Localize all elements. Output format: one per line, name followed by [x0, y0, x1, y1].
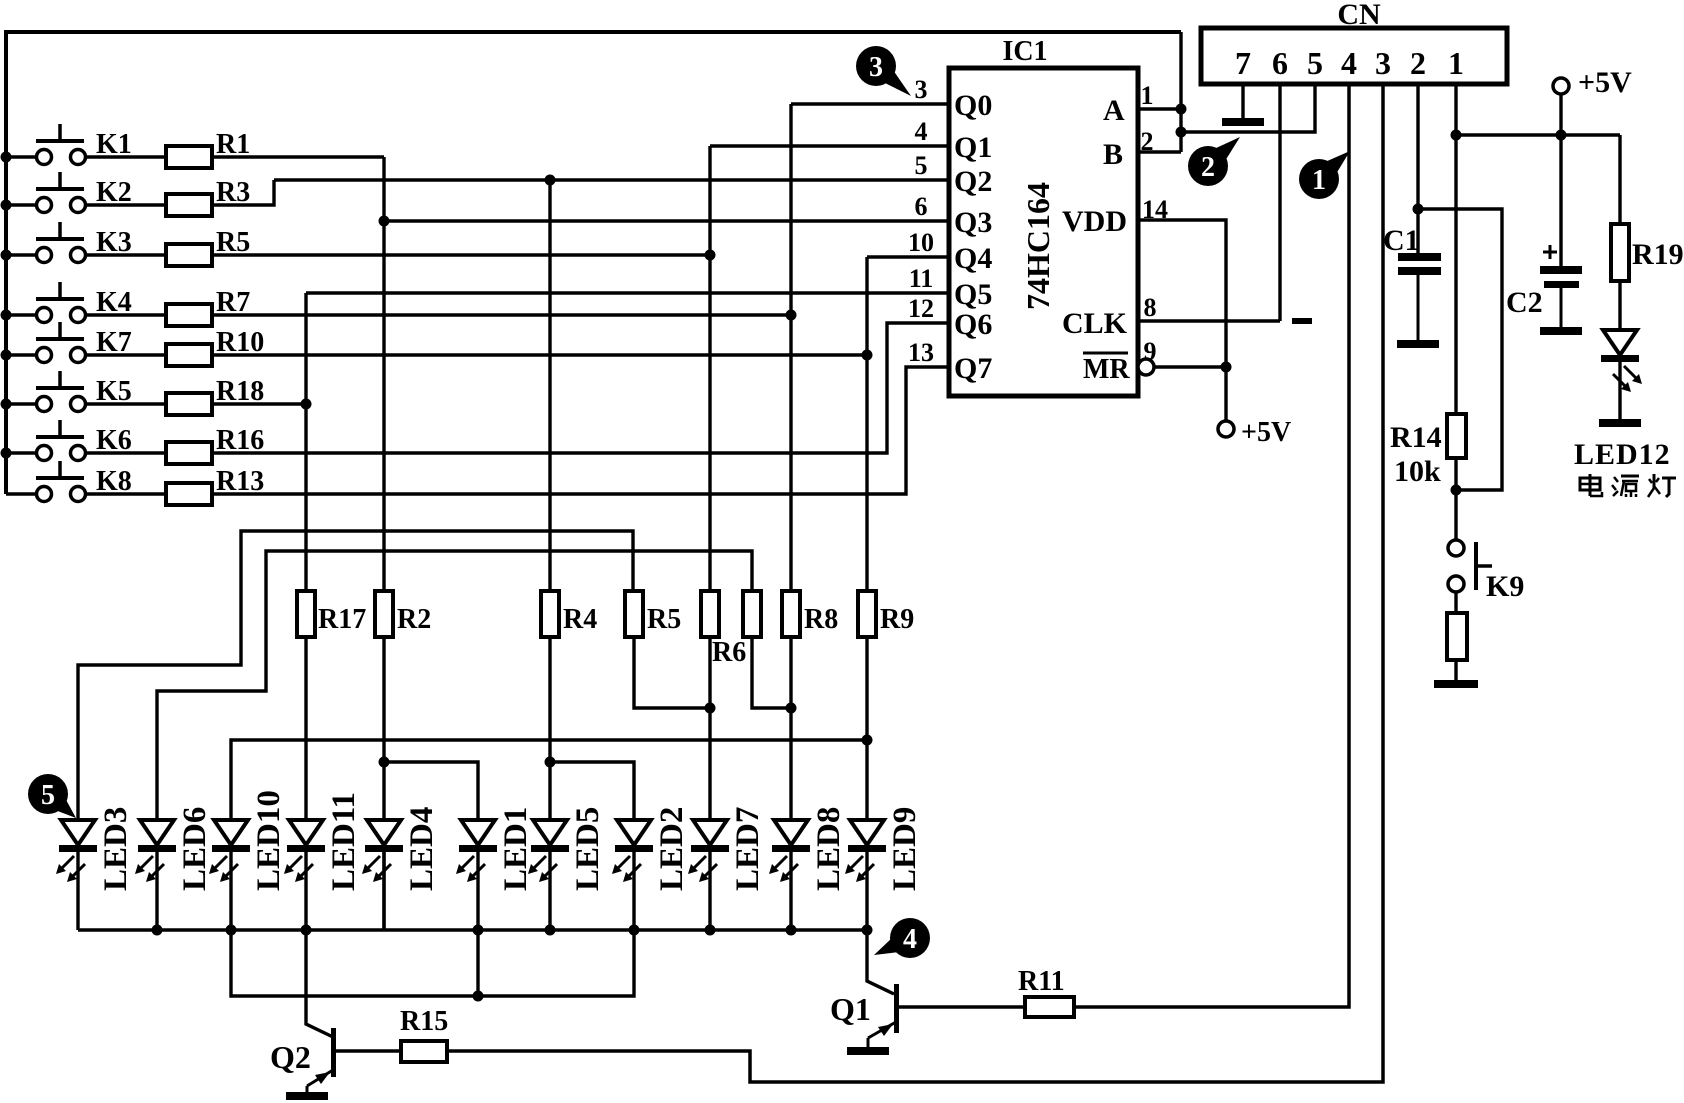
svg-text:+5V: +5V [1578, 66, 1632, 99]
wire LED3 cathode [76, 852, 79, 930]
svg-text:K9: K9 [1486, 570, 1524, 603]
resistor R8 [782, 591, 800, 637]
node B junction [1176, 127, 1187, 138]
svg-text:2: 2 [1410, 45, 1426, 81]
resistor R13 [166, 483, 212, 505]
resistor R7 [166, 304, 212, 326]
wire branch to LED1 [384, 762, 478, 820]
svg-text:LED8: LED8 [811, 807, 847, 891]
node MR VDD junction [1221, 362, 1232, 373]
LED LED1 [456, 820, 497, 882]
svg-text:3: 3 [869, 52, 883, 83]
wire top bus [6, 32, 1181, 494]
wire pin1 to R19 rail [1456, 133, 1620, 136]
node cathode bus junction x231 [226, 925, 237, 936]
resistor R14 [1447, 414, 1466, 458]
svg-text:4: 4 [915, 117, 928, 146]
transistor Q2 [307, 1028, 336, 1092]
wire B to CN pin5 [1181, 84, 1315, 132]
wire R14 bottom [1454, 458, 1457, 490]
svg-text:R14: R14 [1390, 421, 1442, 454]
LED LED2 [612, 820, 653, 882]
resistor R6 [701, 591, 719, 637]
wire LED9 column to Q1 collector [867, 930, 894, 994]
callout 5 [28, 774, 76, 818]
wire LED11 cathode [304, 852, 307, 930]
wire R2 to LED4 [382, 762, 385, 820]
wire R3 step up [212, 180, 274, 205]
wire LED5 cathode [548, 852, 551, 930]
svg-text:MR: MR [1083, 354, 1130, 385]
LED LED10 [209, 820, 250, 882]
wire Q2 column upper [548, 180, 551, 591]
label minus sign [1292, 318, 1312, 324]
wire +5V stub [1559, 94, 1562, 135]
svg-text:LED3: LED3 [98, 807, 134, 891]
wire LED2 cathode [632, 852, 635, 930]
node Q2 net R4 junction [545, 175, 556, 186]
resistor R11 [1025, 997, 1074, 1017]
svg-text:C2: C2 [1506, 286, 1543, 319]
node R6b-R8 bottom junction [786, 703, 797, 714]
resistor R19 [1611, 224, 1629, 281]
node CN pin2 junction [1413, 204, 1424, 215]
svg-text:VDD: VDD [1062, 205, 1127, 238]
transistor Q1 [868, 984, 899, 1047]
resistor R16 [166, 442, 212, 464]
wire C2 top [1559, 135, 1562, 266]
ground C2 [1540, 327, 1582, 335]
wire R19 to LED12 [1618, 281, 1621, 330]
svg-text:LED7: LED7 [730, 807, 766, 891]
pushbutton K4 [6, 282, 166, 323]
LED LED8 [769, 820, 810, 882]
resistor R10 [166, 344, 212, 366]
resistor R5 middle [625, 591, 643, 637]
wire LED4 cathode [382, 852, 385, 930]
node key bus junction K7 [1, 350, 12, 361]
svg-text:K6: K6 [96, 425, 132, 456]
node R5-R6 bottom junction [705, 703, 716, 714]
svg-text:R4: R4 [563, 604, 597, 635]
svg-text:1: 1 [1312, 165, 1326, 196]
svg-text:4: 4 [1341, 45, 1357, 81]
wire R1 to Q3 column [212, 155, 384, 158]
wire pin2 to R14 bottom [1418, 209, 1502, 490]
ground K9 resistor [1434, 680, 1478, 688]
wire LED12 cathode [1618, 362, 1621, 419]
node R10 junction on R9 column [862, 350, 873, 361]
node Q3 junction on R2 column [379, 216, 390, 227]
svg-text:LED11: LED11 [326, 792, 362, 891]
svg-text:C1: C1 [1383, 224, 1420, 257]
svg-text:1: 1 [1141, 81, 1154, 110]
wire Q5 pin11 row [306, 291, 949, 294]
svg-text:LED1: LED1 [498, 807, 534, 891]
resistor R4 [541, 591, 559, 637]
label dianyuandeng [1580, 474, 1676, 497]
resistor R9 [858, 591, 876, 637]
resistor R1 [166, 146, 212, 168]
wire bus1 LED10 feed [231, 740, 867, 820]
svg-text:R9: R9 [880, 604, 914, 635]
node R18 junction on R17 column [301, 399, 312, 410]
node C2 junction [1556, 130, 1567, 141]
svg-text:4: 4 [903, 924, 917, 955]
wire R2 down [382, 637, 385, 762]
pushbutton K7 [6, 322, 166, 363]
wire K9 to R20 [1454, 592, 1457, 613]
LED LED11 [284, 820, 325, 882]
svg-text:74HC164: 74HC164 [1020, 182, 1056, 310]
wire LED6 feed line B [157, 551, 752, 820]
wire Q0 column upper [789, 104, 792, 591]
wire R4 down [548, 637, 551, 762]
wire R11 to CN pin4 [1074, 84, 1349, 1007]
node R4 output junction [545, 757, 556, 768]
wire LED11 column to Q2 collector [306, 930, 333, 1037]
wire R17 to LED11 [304, 637, 307, 820]
wire R20 to ground [1454, 660, 1457, 680]
wire VDD pin14 [1138, 220, 1226, 421]
svg-text:R6: R6 [712, 637, 746, 668]
svg-text:R19: R19 [1632, 238, 1684, 271]
LED LED9 [845, 820, 886, 882]
wire Q3 column upper [382, 157, 385, 591]
LED LED12 [1601, 330, 1642, 392]
svg-text:LED9: LED9 [887, 807, 923, 891]
overline MR [1083, 352, 1128, 355]
resistor R3 [166, 194, 212, 216]
resistor R17 [297, 591, 315, 637]
wire AB tie vertical [1179, 32, 1182, 152]
wire Q1 column upper [708, 146, 711, 591]
pushbutton K9 [1448, 540, 1492, 592]
pushbutton K3 [6, 222, 166, 263]
node R7 junction on R8 column [786, 310, 797, 321]
wire LED3 feed line A [78, 531, 633, 820]
node R14 bottom junction [1451, 485, 1462, 496]
node key bus junction K6 [1, 448, 12, 459]
node CN pin1 junction [1451, 130, 1462, 141]
ground LED12 [1599, 419, 1641, 427]
label C2 plus [1543, 245, 1557, 259]
wire Q3 pin6 row [384, 219, 949, 222]
bubble MR pin9 [1138, 359, 1154, 375]
terminal +5V VDD [1218, 421, 1234, 437]
callout 3 [856, 46, 911, 96]
svg-text:R2: R2 [397, 604, 431, 635]
svg-text:LED5: LED5 [570, 807, 606, 891]
svg-text:Q7: Q7 [954, 352, 992, 385]
wire R18 to R17 column [212, 402, 306, 405]
svg-text:K2: K2 [96, 177, 132, 208]
ground CN pin7 [1222, 118, 1264, 126]
LED LED4 [362, 820, 403, 882]
connector CN body [1201, 28, 1507, 84]
pushbutton K5 [6, 371, 166, 412]
node R5 junction on R6 column [705, 250, 716, 261]
svg-text:13: 13 [908, 338, 934, 367]
svg-text:Q2: Q2 [954, 165, 992, 198]
terminal +5V rail [1553, 78, 1569, 94]
svg-text:Q6: Q6 [954, 308, 992, 341]
wire LED1 cathode extension [476, 930, 479, 996]
wire LED9 cathode [865, 852, 868, 930]
wire R7 to R8 column [212, 313, 791, 316]
wire Q0 pin3 stub [791, 102, 949, 105]
wire Q5 column upper [304, 293, 307, 591]
wire CN pin1 down [1454, 84, 1457, 135]
svg-text:K5: K5 [96, 376, 132, 407]
wire pin1 to R14 [1454, 135, 1457, 414]
node cathode bus junction x867 [862, 925, 873, 936]
callout 4 [874, 918, 930, 958]
callout 2 [1188, 137, 1240, 186]
svg-text:R11: R11 [1018, 966, 1065, 997]
svg-text:K1: K1 [96, 129, 132, 160]
svg-text:IC1: IC1 [1002, 36, 1047, 67]
svg-text:1: 1 [1448, 45, 1464, 81]
wire A pin1 [1138, 107, 1181, 110]
wire branch to LED2 [550, 762, 634, 820]
svg-text:Q0: Q0 [954, 89, 992, 122]
LED LED5 [528, 820, 569, 882]
wire R8 to LED8 [789, 637, 792, 820]
resistor R5 [166, 244, 212, 266]
wire LED8 cathode [789, 852, 792, 930]
svg-text:Q1: Q1 [954, 131, 992, 164]
IC U1 74HC164 body [949, 68, 1138, 396]
svg-text:Q4: Q4 [954, 242, 992, 275]
svg-text:K3: K3 [96, 227, 132, 258]
wire Q2 pin5 row [274, 178, 949, 181]
svg-text:Q1: Q1 [830, 991, 871, 1027]
node cathode bus junction x550 [545, 925, 556, 936]
resistor R18 [166, 393, 212, 415]
resistor R15 [401, 1041, 447, 1062]
wire B pin2 [1138, 150, 1181, 153]
capacitor C1 [1398, 253, 1441, 340]
wire Q1 pin4 stub [710, 144, 949, 147]
wire R14 to K9 [1454, 490, 1457, 540]
node lower loop LED1 junction [473, 991, 484, 1002]
svg-text:2: 2 [1201, 152, 1215, 183]
svg-text:LED10: LED10 [251, 790, 287, 891]
capacitor C2 [1540, 266, 1582, 327]
node cathode bus junction x791 [786, 925, 797, 936]
wire Q4 pin10 stub [867, 255, 949, 258]
node cathode bus junction x710 [705, 925, 716, 936]
callout 1 [1299, 151, 1350, 199]
svg-text:8: 8 [1144, 293, 1157, 322]
node cathode bus junction x634 [629, 925, 640, 936]
wire CN pin7 stub [1241, 84, 1244, 118]
svg-text:CN: CN [1337, 0, 1381, 31]
wire CN pin6 to CLK [1278, 84, 1281, 321]
wire Q2 base [336, 1049, 401, 1052]
LED LED6 [135, 820, 176, 882]
svg-text:6: 6 [915, 192, 928, 221]
svg-text:B: B [1103, 138, 1123, 171]
wire LED1 cathode [476, 852, 479, 930]
wire Q1 base [899, 1005, 1025, 1008]
svg-text:3: 3 [1375, 45, 1391, 81]
node R2 output junction [379, 757, 390, 768]
svg-text:5: 5 [1307, 45, 1323, 81]
svg-text:LED12: LED12 [1574, 438, 1671, 471]
svg-text:12: 12 [908, 294, 934, 323]
svg-text:10: 10 [908, 228, 934, 257]
wire CLK pin8 [1138, 319, 1280, 322]
ground Q1 emitter [847, 1047, 889, 1055]
resistor R20 unlabeled [1447, 613, 1467, 660]
svg-text:R8: R8 [804, 604, 838, 635]
svg-text:11: 11 [909, 264, 934, 293]
svg-text:LED4: LED4 [404, 807, 440, 891]
svg-text:+5V: +5V [1241, 417, 1291, 448]
node key bus junction K2 [1, 200, 12, 211]
wire R4 to LED5 [548, 762, 551, 820]
wire R5 to R6 column [212, 253, 710, 256]
wire LED cathode bus [78, 928, 867, 932]
svg-text:Q3: Q3 [954, 206, 992, 239]
wire R6b down [752, 637, 791, 708]
svg-text:7: 7 [1235, 45, 1251, 81]
wire Q4 column upper [865, 257, 868, 591]
wire LED7 cathode [708, 852, 711, 930]
svg-text:LED6: LED6 [177, 807, 213, 891]
LED LED3 [56, 820, 97, 882]
svg-text:CLK: CLK [1062, 307, 1128, 340]
node cathode bus junction x306 [301, 925, 312, 936]
wire lower cathode loop [231, 930, 634, 996]
wire LED6 cathode [155, 852, 158, 930]
node key bus junction K1 [1, 152, 12, 163]
svg-text:K7: K7 [96, 327, 132, 358]
svg-text:K4: K4 [96, 287, 132, 318]
LED LED7 [688, 820, 729, 882]
svg-text:Q2: Q2 [270, 1039, 311, 1075]
svg-text:Q5: Q5 [954, 278, 992, 311]
svg-text:5: 5 [915, 151, 928, 180]
wire R5 middle down [634, 637, 710, 708]
pushbutton K8 [6, 461, 166, 502]
ground Q2 emitter [286, 1092, 328, 1100]
pushbutton K1 [6, 124, 166, 165]
wire R19 top [1618, 135, 1621, 224]
node A junction [1176, 104, 1187, 115]
pushbutton K2 [6, 172, 166, 213]
svg-text:R5: R5 [647, 604, 681, 635]
svg-text:3: 3 [915, 75, 928, 104]
wire R15 to CN pin3 [447, 84, 1383, 1082]
node cathode bus junction x478 [473, 925, 484, 936]
node key bus junction K3 [1, 250, 12, 261]
wire R9 down [865, 637, 868, 820]
svg-text:R17: R17 [318, 604, 366, 635]
node R9 bus1 junction [862, 735, 873, 746]
wire LED10 cathode [229, 852, 232, 930]
wire R6 to LED7 [708, 637, 711, 820]
wire LED4 cathode [382, 852, 385, 930]
wire MR pin9 [1154, 365, 1226, 368]
node key bus junction K4 [1, 310, 12, 321]
wire R10 to R9 column [212, 353, 867, 356]
wire C1 top [1416, 209, 1419, 253]
svg-text:R15: R15 [400, 1006, 448, 1037]
svg-text:LED2: LED2 [654, 807, 690, 891]
svg-text:10k: 10k [1394, 455, 1441, 488]
svg-text:6: 6 [1272, 45, 1288, 81]
node key bus junction K5 [1, 399, 12, 410]
resistor R6b unlabeled [743, 591, 761, 637]
ground C1 [1397, 340, 1439, 348]
svg-text:K8: K8 [96, 466, 132, 497]
node cathode bus junction x157 [152, 925, 163, 936]
resistor R2 [375, 591, 393, 637]
wire CN pin2 down [1416, 84, 1419, 209]
svg-text:A: A [1103, 94, 1125, 127]
pushbutton K6 [6, 420, 166, 461]
wire R13 to Q7 pin13 [212, 367, 949, 494]
svg-text:5: 5 [41, 780, 55, 811]
wire R16 to Q6 pin12 [212, 323, 949, 453]
